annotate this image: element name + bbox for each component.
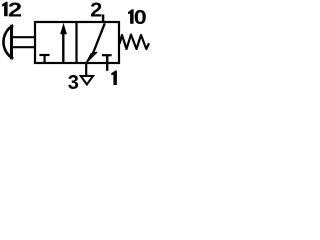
exhaust triangle at port 3 [81, 76, 93, 84]
box divider [75, 21, 77, 64]
return spring [120, 35, 150, 49]
label 10 (spring return signal) [128, 9, 134, 23]
right box flow path 2 to 3 (diagonal) [86, 23, 105, 62]
svg-text:2: 2 [8, 0, 22, 21]
label 12 (actuation signal) [2, 2, 8, 17]
left box blocked port T (port 3 side) [39, 55, 49, 63]
port 3 stub [85, 63, 87, 75]
svg-text:2: 2 [90, 0, 102, 21]
left box flow arrow (1 to 2) [60, 23, 67, 63]
push-button actuator cap [3, 25, 13, 58]
svg-text:3: 3 [68, 72, 79, 94]
port 2 stub [102, 15, 104, 24]
right box blocked port T (port 1) [102, 55, 112, 71]
valve body (two position boxes) [35, 22, 119, 63]
push-button upper link rod [12, 36, 36, 38]
pneumatic 3/2-way push-button valve symbol [0, 0, 154, 96]
push-button plate [10, 25, 13, 59]
label 1 (pressure port) [111, 71, 117, 86]
svg-text:0: 0 [134, 5, 147, 28]
push-button lower link rod [12, 46, 36, 48]
